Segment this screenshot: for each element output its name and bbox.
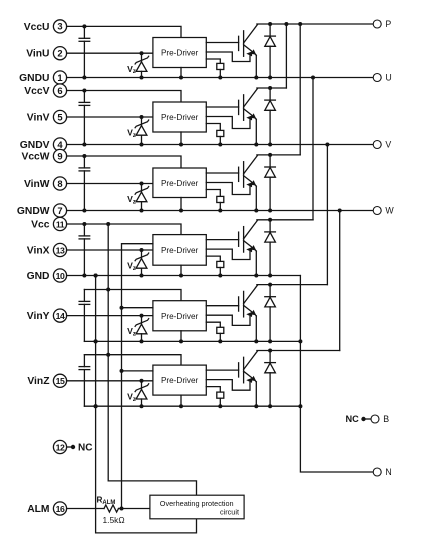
wire W bus to phase Z collector [338,209,342,351]
sense resistor phase X [206,256,224,277]
sense resistor phase Z [206,387,224,409]
decoupling capacitor phase W [79,156,90,211]
wire collector rail phase Y [257,284,328,286]
svg-text:VinV: VinV [27,112,50,123]
svg-text:GNDV: GNDV [20,140,50,151]
svg-text:GNDW: GNDW [17,206,50,217]
svg-text:GND: GND [27,271,50,282]
label VinU [26,49,49,60]
label GNDV [20,140,50,151]
wire Vcc to Pre-Driver supply [67,224,181,235]
junctions on emitter rail Y [94,339,259,343]
wire GND bus [94,274,197,533]
Vcc branch wire to Pre-Driver Z [84,355,181,365]
wire VinY input [67,315,153,317]
pin 9 (VccW) [53,149,66,162]
wire ALM input to Pre-Driver Z [120,369,153,373]
wire U bus to phase X collector [311,76,315,220]
freewheel diode phase W [265,153,276,213]
node P (output pin) [373,19,391,29]
svg-text:VccV: VccV [24,86,49,97]
svg-text:Pre-Driver: Pre-Driver [161,179,199,188]
svg-text:P: P [385,19,391,29]
decoupling capacitor phase X [79,224,90,276]
label Vz phase Z [127,391,136,402]
junctions on emitter rail W [82,209,258,213]
svg-text:VinW: VinW [24,179,50,190]
transistor IGBT phase V [206,89,257,145]
label VccU [24,22,50,33]
label Vz phase U [127,64,136,75]
zener diode Vz phase W [135,182,149,211]
svg-text:Overheating protection: Overheating protection [160,499,234,508]
svg-text:circuit: circuit [220,508,239,517]
wire Pre-Driver V ground stub [180,132,182,145]
svg-text:6: 6 [57,85,62,96]
pin 14 (VinY) [53,309,66,322]
pin 6 (VccV) [53,84,66,97]
svg-text:VccW: VccW [21,151,49,162]
zener diode Vz phase X [135,248,149,276]
pin 7 (GNDW) [53,204,66,217]
wire VccV to Pre-Driver supply [67,91,181,103]
svg-text:9: 9 [57,150,62,161]
pin 5 (VinV) [53,110,66,123]
transistor IGBT phase W [206,156,257,211]
svg-text:15: 15 [56,376,65,386]
decoupling capacitor phase Y [79,290,90,342]
svg-text:Pre-Driver: Pre-Driver [161,113,199,122]
pin 4 (GNDV) [53,138,66,151]
wire Vcc bus [108,224,196,495]
sense resistor phase W [206,190,224,213]
label Vz phase Y [127,326,136,337]
svg-text:U: U [385,73,391,83]
svg-text:VinZ: VinZ [27,376,49,387]
label VinY [27,311,50,322]
decoupling capacitor phase Z [79,355,90,407]
svg-text:NC: NC [78,443,92,454]
freewheel diode phase X [265,218,276,278]
overheating protection circuit box [150,495,244,519]
wire emitter rail phase W [67,210,374,212]
wire ALM vertical [120,244,153,511]
pin 15 (VinZ) [53,374,66,387]
wire Pre-Driver U ground stub [180,68,182,78]
svg-text:11: 11 [56,219,65,229]
pin 11 (Vcc) [53,217,66,230]
decoupling capacitor phase U [79,26,90,77]
pin 3 (VccU) [53,20,66,33]
label GND [27,271,50,282]
junctions on emitter rail V [82,143,258,147]
wire P rail junctions [284,22,302,26]
sense resistor phase Y [206,322,224,343]
node V (output pin) [373,140,391,150]
svg-text:14: 14 [56,311,65,321]
pin 1 (GNDU) [53,71,66,84]
wire P feed to phase V collector [285,24,287,88]
transistor IGBT phase Z [206,351,257,406]
label GNDU [19,73,49,84]
junction VccU/decoupling cap [82,24,86,28]
op-amp Pre-Driver U [153,38,206,68]
zener diode Vz phase Y [135,314,149,342]
label RALM [97,496,116,506]
wire collector rail phase W [257,154,300,156]
junction Vcc bus branch [106,353,110,357]
junction Vcc bus branch [106,288,110,292]
wire emitter rail phase Y [84,340,300,342]
wire emitter rail phase V [67,144,374,146]
svg-text:V: V [385,140,391,150]
label VinX [27,245,50,256]
junction Vcc bus [106,222,110,226]
label VinZ [27,376,49,387]
label VinW [24,179,50,190]
svg-text:B: B [383,414,389,424]
wire VinZ input [67,380,153,382]
svg-text:VccU: VccU [24,22,50,33]
wire emitter rail phase X [67,275,301,277]
svg-text:1.5kΩ: 1.5kΩ [103,515,125,525]
junction VccW/decoupling cap [82,154,86,158]
svg-text:Vcc: Vcc [31,219,50,230]
svg-text:5: 5 [57,111,62,122]
wire V bus to phase Y collector [325,143,329,285]
wire VinW input [67,183,153,185]
wire VccU to Pre-Driver supply [67,26,181,37]
svg-text:VinY: VinY [27,311,50,322]
svg-text:W: W [385,206,394,216]
freewheel diode phase V [265,86,276,147]
zener diode Vz phase U [135,51,149,77]
op-amp Pre-Driver W [153,168,206,198]
svg-text:Pre-Driver: Pre-Driver [161,246,199,255]
svg-text:8: 8 [57,178,62,189]
freewheel diode phase Z [265,349,276,409]
junctions on emitter rail Z [94,404,259,408]
wire Pre-Driver Z ground stub [180,395,182,406]
svg-text:NC: NC [346,414,360,424]
wire emitter rail phase Z [84,405,300,407]
wire emitter rail phase U [67,77,374,79]
wire collector rail phase U [257,23,373,25]
node N (output pin) [373,467,392,477]
wire ALM line [67,508,150,510]
node U (output pin) [373,73,392,83]
wire P feed to phase W collector [299,24,301,155]
svg-text:7: 7 [57,205,62,216]
svg-text:13: 13 [56,245,65,255]
pin 13 (VinX) [53,243,66,256]
junctions on emitter rail U [82,76,258,80]
pin 10 (GND) [53,269,66,282]
svg-text:Pre-Driver: Pre-Driver [161,312,199,321]
wire VinX input [67,249,153,251]
sense resistor phase V [206,124,224,147]
svg-text:N: N [385,467,391,477]
junctions on emitter rail X [82,274,258,278]
svg-text:VinX: VinX [27,245,50,256]
label VinV [27,112,50,123]
label GNDW [17,206,50,217]
wire collector rail phase X [257,219,313,221]
svg-text:4: 4 [57,139,63,150]
wire pin 12 NC stub [67,443,93,454]
label Vz phase W [127,194,136,205]
svg-text:ALM: ALM [27,504,49,515]
svg-text:Pre-Driver: Pre-Driver [161,376,199,385]
node B (NC pin) [346,414,390,424]
label Vz phase V [127,128,136,139]
wire VinU input [67,52,153,54]
sense resistor phase U [206,59,224,80]
freewheel diode phase Y [265,283,276,344]
label VccW [21,151,49,162]
op-amp Pre-Driver Z [153,365,206,395]
label Vcc [31,219,50,230]
junction Vcc/decoupling cap [82,222,86,226]
freewheel diode phase U [265,22,276,80]
zener diode Vz phase Z [135,379,149,406]
wire N bus [298,276,373,473]
resistor RALM 1.5k [104,505,119,512]
node W (output pin) [373,206,394,216]
junction VccV/decoupling cap [82,89,86,93]
svg-text:10: 10 [56,271,65,281]
wire collector rail phase Z [257,350,340,352]
pin 8 (VinW) [53,177,66,190]
label 1.5k ohm [103,515,125,525]
svg-text:16: 16 [56,504,65,514]
transistor IGBT phase U [206,25,257,78]
label Vz phase X [127,261,136,272]
zener diode Vz phase V [135,115,149,145]
pin 16 (ALM) [53,502,66,515]
svg-text:12: 12 [56,442,65,452]
label ALM [27,504,49,515]
svg-text:3: 3 [57,21,62,32]
wire VccW to Pre-Driver supply [67,156,181,168]
Vcc branch wire to Pre-Driver Y [84,290,181,301]
wire Pre-Driver Y ground stub [180,331,182,342]
wire collector rail phase V [257,87,287,89]
svg-text:VinU: VinU [26,49,49,60]
svg-text:Pre-Driver: Pre-Driver [161,49,199,58]
wire Pre-Driver X ground stub [180,265,182,275]
svg-text:1: 1 [57,72,62,83]
transistor IGBT phase Y [206,285,257,341]
decoupling capacitor phase V [79,91,90,145]
op-amp Pre-Driver Y [153,301,206,331]
label VccV [24,86,49,97]
transistor IGBT phase X [206,220,257,275]
wire Pre-Driver W ground stub [180,198,182,211]
svg-text:GNDU: GNDU [19,73,49,84]
op-amp Pre-Driver V [153,102,206,132]
wire ALM input to Pre-Driver Y [120,306,153,310]
wire VinV input [67,116,153,118]
pin 2 (VinU) [53,47,66,60]
op-amp Pre-Driver X [153,235,206,266]
svg-text:2: 2 [57,48,62,59]
pin 12 (NC) [53,440,66,453]
